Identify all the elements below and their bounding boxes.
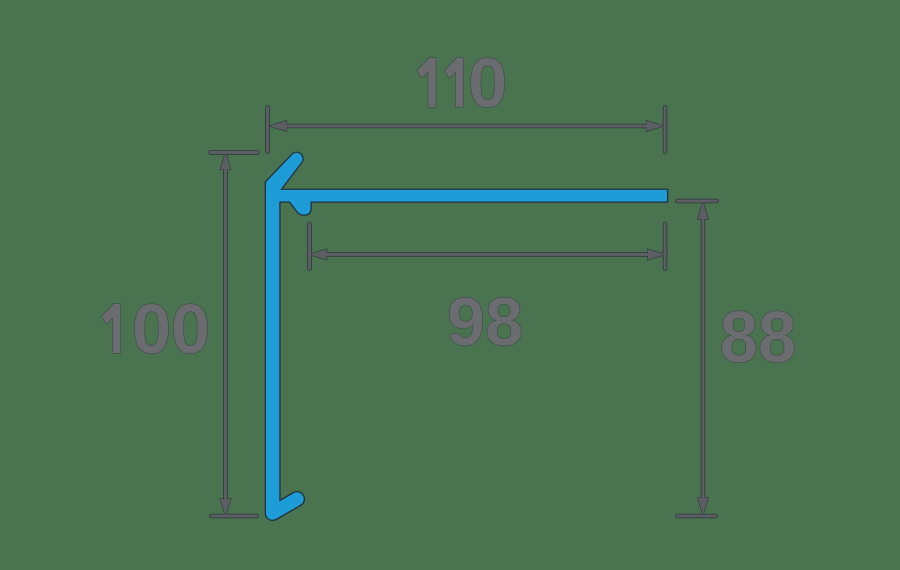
bottom arrow outline for dim 88 [698,499,707,514]
arrow left of 98 [311,250,326,259]
left arrow outline for dim 110 [271,121,286,130]
right arrow outline for dim 98 [649,250,664,259]
left arrow outline for dim 98 [311,250,326,259]
vertical leg with bottom hook [273,186,297,513]
svg-text:88: 88 [720,297,797,378]
svg-text:98: 98 [447,284,523,360]
arrow top of 100 [221,154,230,169]
extension ticks and line for dim 88 [678,201,717,516]
arrow right of 98 [649,250,664,259]
extension ticks and line for dim 110 [268,108,666,152]
arrow right of 110 [647,121,662,130]
outline pass for dim 98 [310,224,666,269]
horizontal bar outline [271,189,668,203]
outline pass for dim 100 [211,153,258,517]
arrow bottom of 100 [221,500,230,515]
outline pass for dim 110 [268,108,666,152]
svg-text:0: 0 [468,44,507,122]
label 110 : digit 1 [417,58,436,107]
extension ticks and line for dim 100 [211,153,258,517]
drip bump under bar [290,201,311,215]
label 100 : digit 1 [102,304,121,353]
arrow left of 110 [271,121,286,130]
dimension 100 line [211,153,258,517]
svg-text:00: 00 [132,290,210,368]
dimension 98 line [310,224,666,269]
right arrow outline for dim 110 [647,121,662,130]
label 110 : digit 1 [445,58,464,107]
vertical leg and hook outline [273,186,297,513]
arrow bottom of 88 [698,499,707,514]
extension ticks and line for dim 98 [310,224,666,269]
dimension 88 line [678,201,717,516]
outline pass for dim 88 [678,201,717,516]
blue F-profile body [266,153,667,513]
top arrow outline for dim 100 [221,154,230,169]
top arrow outline for dim 88 [698,204,707,219]
profile outline (dark edge pass under blue) [266,153,668,513]
ticks and line outline for dim 110 [268,108,666,152]
dimension 110 line [268,108,666,152]
arrow top of 88 [698,204,707,219]
bottom arrow outline for dim 100 [221,500,230,515]
ticks and line outline for dim 100 [211,153,258,517]
top angled stub outline [266,153,303,190]
horizontal bar [273,190,667,202]
dimension labels [102,44,796,378]
ticks and line outline for dim 98 [310,224,666,269]
drip bump outline [290,201,311,215]
top angled stub [266,153,303,190]
dimension graphics [211,108,717,517]
ticks and line outline for dim 88 [678,201,717,516]
